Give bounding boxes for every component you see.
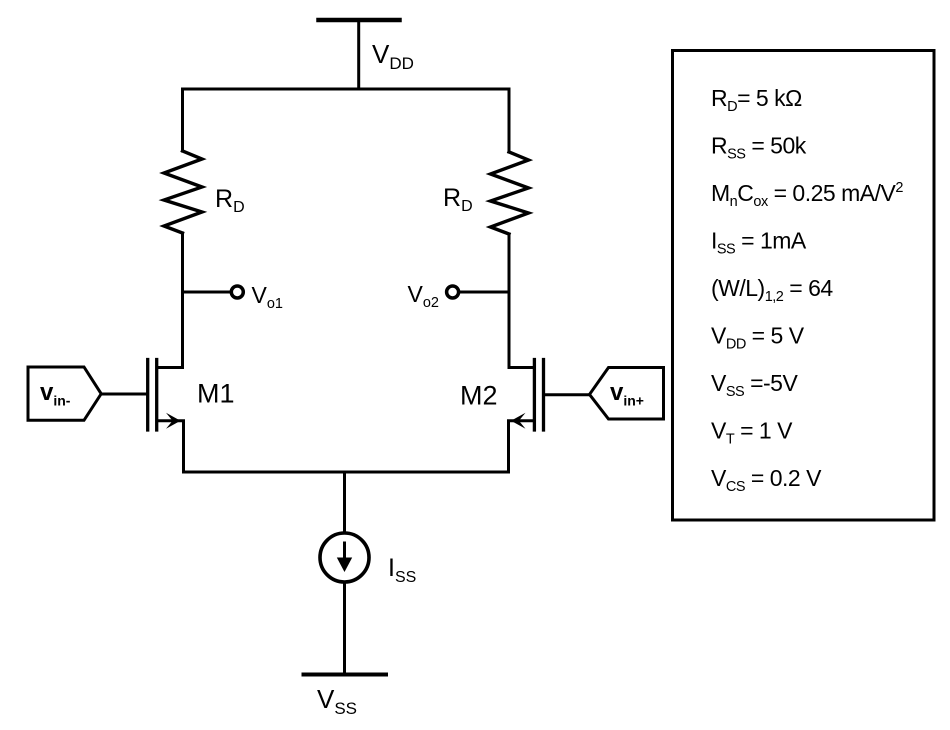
transistor M2 source arrow <box>511 413 526 429</box>
resistor R_D left <box>164 151 202 233</box>
current source arrow shaft <box>343 543 346 561</box>
wire tail stem lower <box>343 582 346 675</box>
input flag vin+ outline <box>590 368 664 420</box>
wire left drain top <box>181 89 184 151</box>
svg-text:VDD = 5 V: VDD = 5 V <box>711 323 805 353</box>
input flag vin- outline <box>28 367 101 420</box>
transistor M2 channel bar <box>533 360 536 431</box>
svg-text:VSS =-5V: VSS =-5V <box>711 370 798 400</box>
current source ISS arrowhead <box>337 558 352 573</box>
wire tail rail <box>184 471 509 474</box>
transistor M1 gate bar <box>146 360 149 431</box>
node Vo1 stub <box>183 291 232 294</box>
resistor R_D right <box>491 152 529 234</box>
transistor M2 gate bar <box>542 360 545 431</box>
supply VSS bar <box>304 673 387 677</box>
wire gate M2 <box>545 393 589 396</box>
transistor M1 source wire <box>158 421 184 472</box>
current source ISS circle <box>320 533 369 582</box>
transistor M1 channel bar <box>155 360 158 431</box>
wire gate M1 <box>101 393 146 396</box>
parameter box <box>673 51 935 521</box>
node Vo2 terminal circle <box>447 286 459 298</box>
svg-text:M1: M1 <box>197 379 235 409</box>
svg-text:MnCox = 0.25 mA/V2: MnCox = 0.25 mA/V2 <box>711 180 903 210</box>
transistor M2 source wire <box>509 421 534 472</box>
wire VDD stem <box>357 20 360 89</box>
wire top rail <box>183 88 510 91</box>
wire tail stem upper <box>343 472 346 533</box>
svg-text:RD= 5 kΩ: RD= 5 kΩ <box>711 85 802 115</box>
wire right resistor to M2 drain <box>509 234 534 368</box>
svg-text:VT = 1 V: VT = 1 V <box>711 418 793 448</box>
wire right drain top <box>508 89 511 152</box>
svg-text:RSS = 50k: RSS = 50k <box>711 133 807 163</box>
transistor M1 source arrow <box>166 413 181 429</box>
node Vo2 stub <box>461 291 510 294</box>
svg-text:M2: M2 <box>460 381 498 411</box>
node Vo1 terminal circle <box>231 286 243 298</box>
supply VDD bar <box>319 18 400 23</box>
wire left resistor to M1 drain <box>158 233 183 368</box>
